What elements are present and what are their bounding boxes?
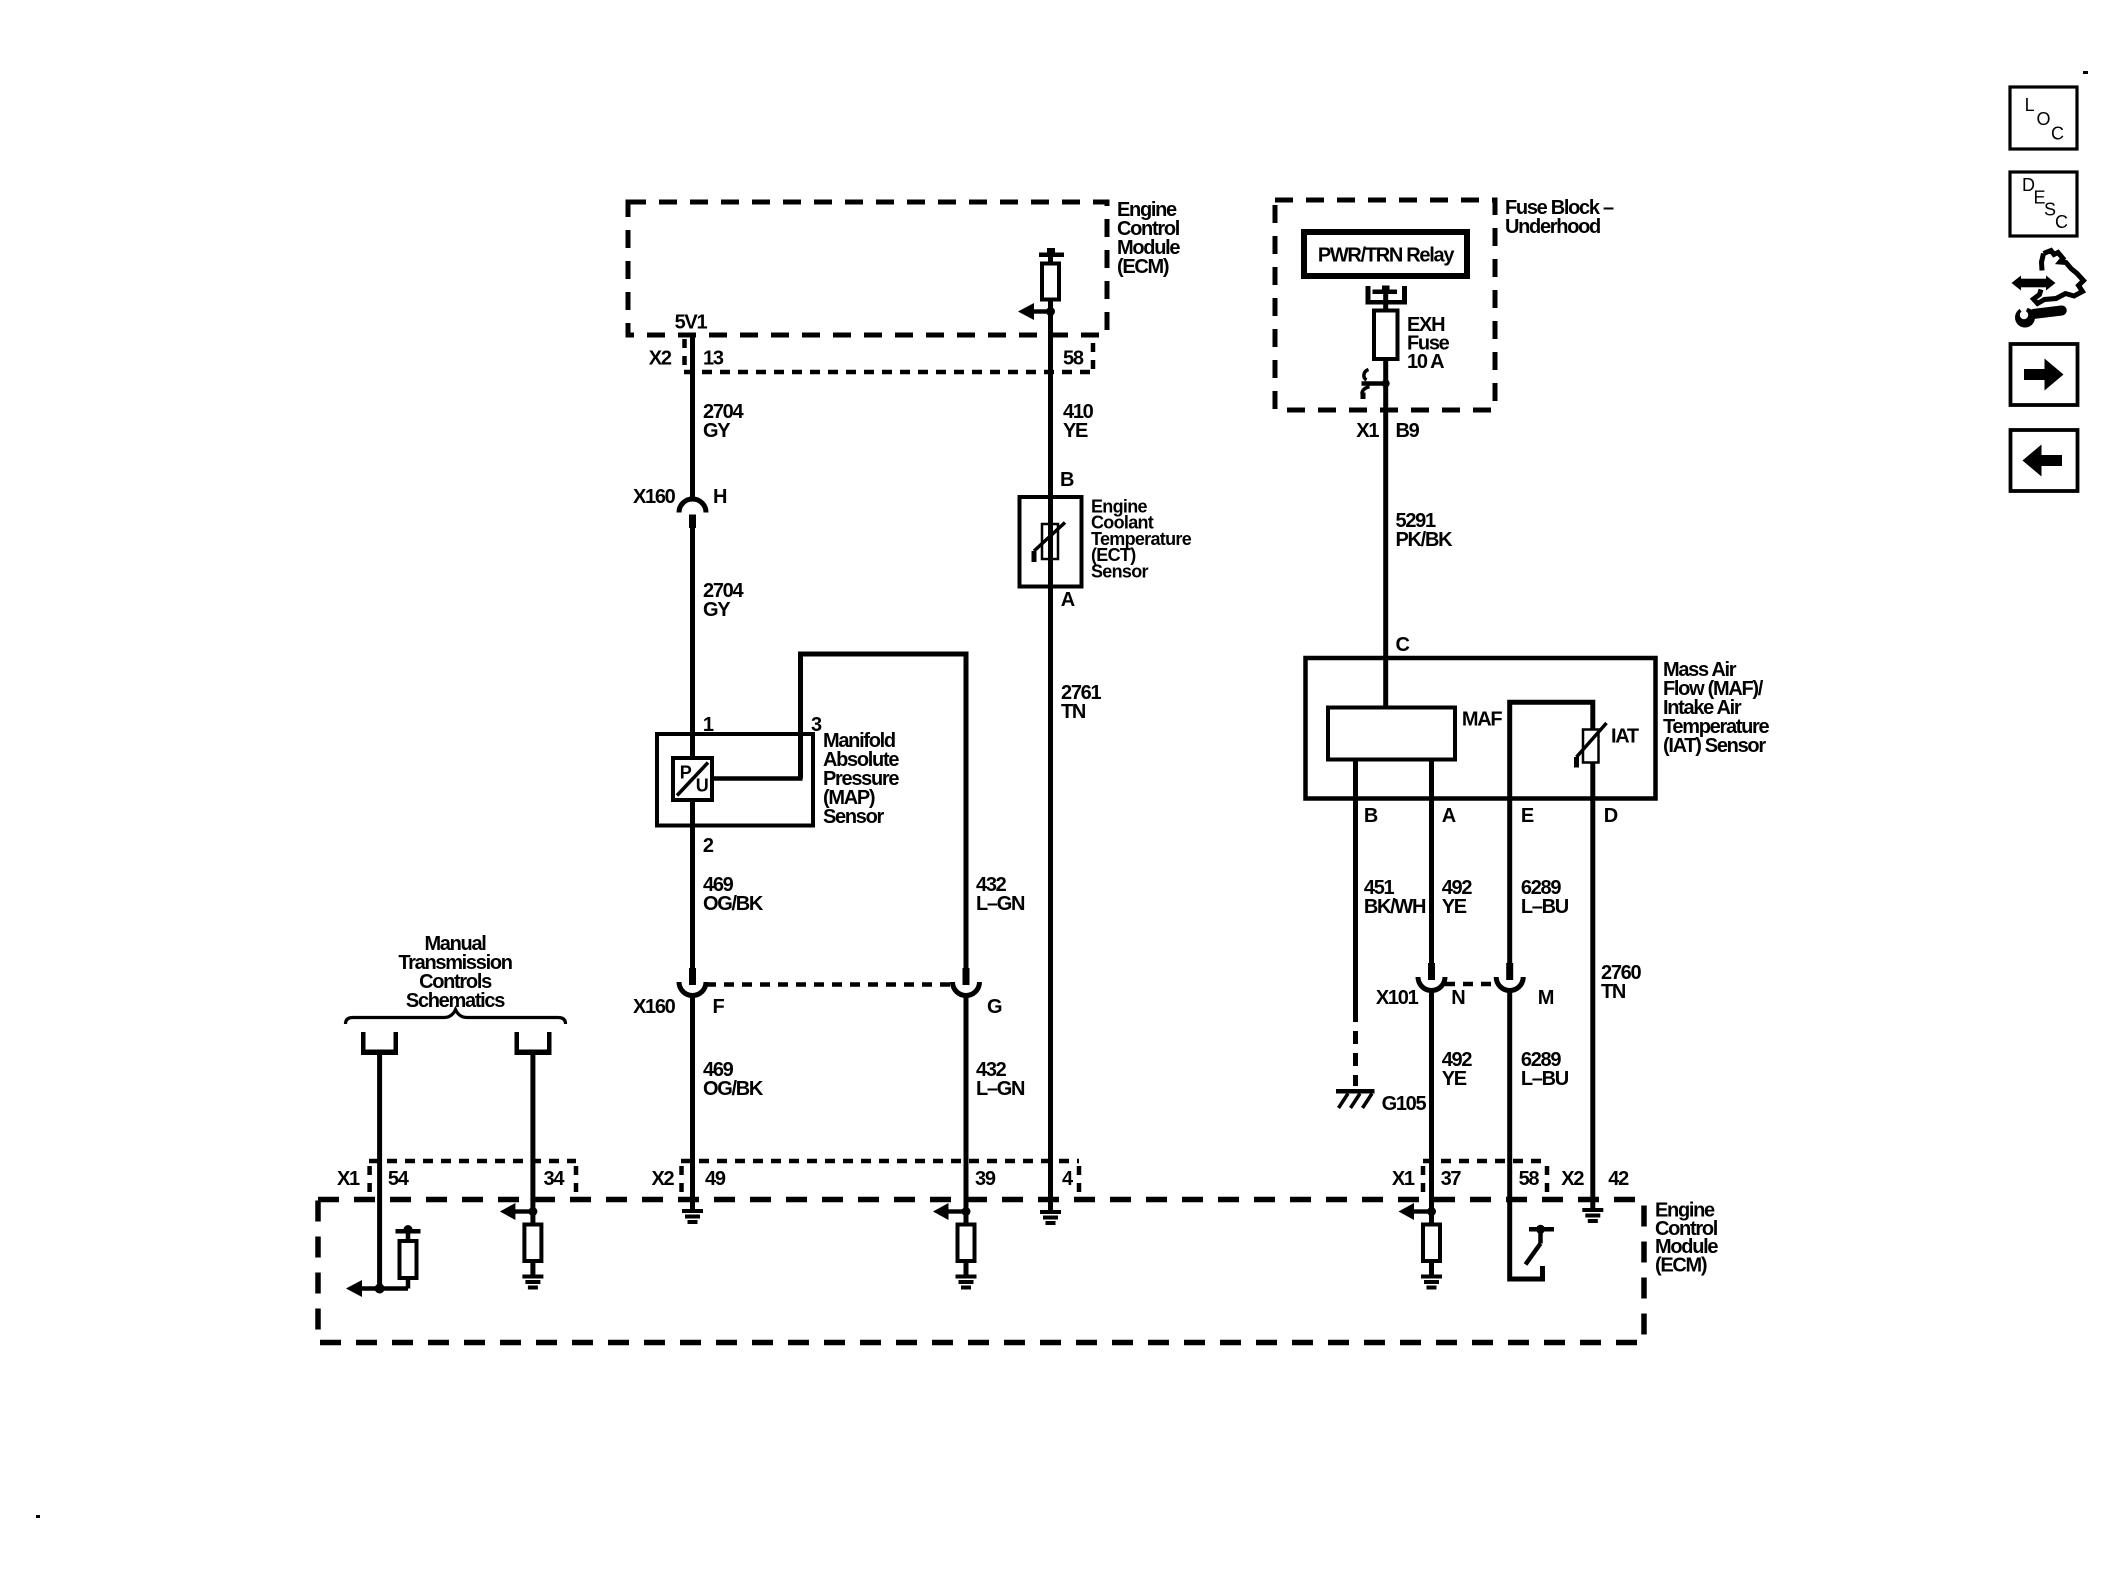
svg-text:B: B — [1364, 805, 1378, 827]
svg-text:54: 54 — [388, 1168, 410, 1190]
svg-text:X1: X1 — [337, 1168, 360, 1190]
svg-text:YE: YE — [1063, 420, 1088, 442]
svg-text:X1: X1 — [1356, 420, 1379, 442]
svg-text:X160: X160 — [633, 996, 676, 1018]
svg-text:13: 13 — [703, 348, 724, 370]
svg-text:L–BU: L–BU — [1521, 896, 1569, 918]
svg-text:U: U — [696, 776, 708, 796]
svg-text:37: 37 — [1441, 1168, 1462, 1190]
svg-text:58: 58 — [1063, 348, 1084, 370]
svg-text:X1: X1 — [1392, 1168, 1415, 1190]
svg-text:PWR/TRN Relay: PWR/TRN Relay — [1318, 245, 1456, 267]
svg-text:C: C — [2051, 124, 2064, 144]
svg-text:(ECM): (ECM) — [1655, 1254, 1707, 1276]
svg-text:39: 39 — [975, 1168, 996, 1190]
svg-text:G105: G105 — [1382, 1093, 1427, 1115]
svg-text:D: D — [1604, 805, 1618, 827]
svg-text:GY: GY — [703, 420, 731, 442]
svg-text:Underhood: Underhood — [1505, 216, 1600, 238]
svg-text:G: G — [987, 996, 1002, 1018]
svg-text:O: O — [2037, 109, 2051, 129]
svg-text:L–GN: L–GN — [976, 1078, 1025, 1100]
svg-text:P: P — [680, 763, 692, 783]
svg-text:X2: X2 — [652, 1168, 675, 1190]
svg-text:MAF: MAF — [1462, 709, 1503, 731]
svg-text:58: 58 — [1519, 1168, 1540, 1190]
svg-text:E: E — [1521, 805, 1534, 827]
svg-text:B9: B9 — [1396, 420, 1420, 442]
svg-text:A: A — [1061, 589, 1075, 611]
svg-text:Sensor: Sensor — [823, 806, 885, 828]
svg-text:X101: X101 — [1376, 987, 1419, 1009]
svg-text:Sensor: Sensor — [1091, 561, 1149, 581]
svg-text:YE: YE — [1442, 1068, 1467, 1090]
svg-text:X160: X160 — [633, 486, 676, 508]
svg-text:GY: GY — [703, 599, 731, 621]
svg-text:OG/BK: OG/BK — [703, 1078, 764, 1100]
svg-text:3: 3 — [811, 714, 822, 736]
svg-text:(ECM): (ECM) — [1117, 256, 1169, 278]
svg-text:TN: TN — [1061, 701, 1086, 723]
svg-text:(IAT) Sensor: (IAT) Sensor — [1663, 735, 1766, 757]
svg-text:1: 1 — [703, 714, 714, 736]
svg-text:L–BU: L–BU — [1521, 1068, 1569, 1090]
svg-text:OG/BK: OG/BK — [703, 893, 764, 915]
svg-text:A: A — [1442, 805, 1456, 827]
svg-text:H: H — [713, 486, 727, 508]
svg-text:IAT: IAT — [1611, 726, 1639, 748]
svg-text:10 A: 10 A — [1407, 351, 1444, 373]
svg-text:42: 42 — [1608, 1168, 1629, 1190]
svg-text:5V1: 5V1 — [675, 312, 708, 334]
svg-text:YE: YE — [1442, 896, 1467, 918]
svg-text:34: 34 — [544, 1168, 566, 1190]
svg-text:TN: TN — [1601, 981, 1626, 1003]
svg-text:L: L — [2025, 95, 2035, 115]
svg-text:M: M — [1538, 987, 1554, 1009]
svg-text:C: C — [1396, 634, 1410, 656]
svg-text:X2: X2 — [649, 348, 672, 370]
svg-text:BK/WH: BK/WH — [1364, 896, 1426, 918]
svg-text:N: N — [1451, 987, 1465, 1009]
svg-text:C: C — [2055, 212, 2068, 232]
svg-text:Schematics: Schematics — [406, 990, 505, 1012]
svg-text:F: F — [713, 996, 725, 1018]
svg-text:PK/BK: PK/BK — [1396, 529, 1454, 551]
svg-text:2: 2 — [703, 835, 714, 857]
svg-text:X2: X2 — [1561, 1168, 1584, 1190]
svg-text:L–GN: L–GN — [976, 893, 1025, 915]
svg-text:B: B — [1060, 469, 1074, 491]
svg-text:49: 49 — [705, 1168, 726, 1190]
